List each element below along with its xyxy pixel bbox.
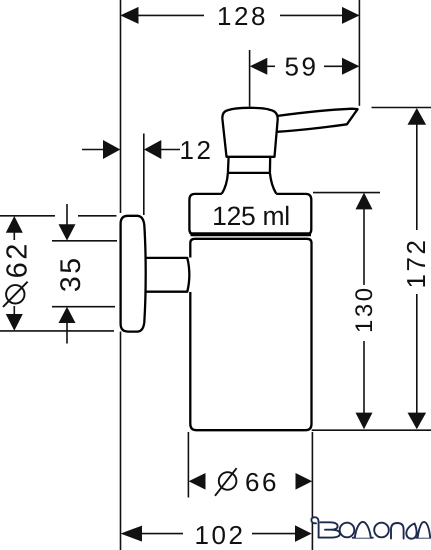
wire bottom right extension line xyxy=(312,429,431,431)
watermark logo Vodopad xyxy=(311,517,430,538)
bottle xyxy=(190,239,311,430)
arrow 172 bottom pointing down xyxy=(408,413,427,430)
arrow 35 upper pointing down xyxy=(59,224,76,240)
arrow 172 top pointing up xyxy=(408,108,427,125)
arrow 102 right xyxy=(295,525,312,542)
symbol diameter of 66 xyxy=(219,472,237,490)
wire 12 dimension line right tail xyxy=(160,149,180,151)
arrow 128 left xyxy=(120,7,138,24)
wall plate xyxy=(121,216,146,332)
wire 128 dimension line xyxy=(137,14,204,16)
wire dia62 bottom extension line xyxy=(0,330,114,332)
spout xyxy=(277,109,358,132)
letter V(B) bumps xyxy=(319,522,340,537)
arrow dia66 left xyxy=(189,473,206,490)
letter p arch xyxy=(391,523,404,539)
letter V(B) stem with curl xyxy=(311,517,318,537)
svg-text:125 ml: 125 ml xyxy=(212,201,290,231)
wire 12 dimension line left tail xyxy=(82,149,104,151)
wire dia62 dimension line tails xyxy=(13,231,15,240)
arrow 35 lower pointing up xyxy=(59,307,76,323)
arrow 12 left pointing right xyxy=(103,140,120,159)
arrow dia62 bottom pointing down xyxy=(6,314,23,331)
wire 172 dimension line xyxy=(416,124,418,231)
pump head xyxy=(222,108,277,157)
arrow 130 bottom pointing down xyxy=(356,413,373,430)
wire 59 left extension line xyxy=(249,50,251,107)
wire 59 dimension line xyxy=(266,65,275,67)
letter a drop xyxy=(406,524,416,539)
svg-text:59: 59 xyxy=(285,52,319,82)
wire 35 bottom extension line xyxy=(52,306,115,308)
arrow 128 right xyxy=(342,7,360,24)
wire 35 top extension line xyxy=(52,240,117,242)
wire dia66 left extension line xyxy=(187,432,189,498)
letter d 2 bell xyxy=(418,522,431,538)
wire 35 dimension line tails xyxy=(66,204,68,226)
letter o 1 xyxy=(340,523,355,538)
pump skirt xyxy=(222,173,276,194)
wire dia66 right extension line xyxy=(311,432,313,550)
svg-text:66: 66 xyxy=(245,467,279,497)
arm xyxy=(145,258,189,292)
arrow dia62 top pointing up xyxy=(6,216,23,233)
letter d 2 base xyxy=(416,537,430,539)
svg-text:128: 128 xyxy=(217,1,268,31)
letter d 1 base xyxy=(353,537,373,539)
holder thick bottom edge xyxy=(191,232,312,236)
wire wall extension line upper xyxy=(120,0,122,213)
wire 130 top extension line xyxy=(313,192,380,194)
svg-text:172: 172 xyxy=(401,238,431,289)
letter o 2 xyxy=(374,523,389,538)
arrow dia66 right xyxy=(296,473,313,490)
svg-text:12: 12 xyxy=(180,135,214,165)
arrow 130 top pointing up xyxy=(356,193,373,210)
arrow 12 right pointing left xyxy=(144,140,161,159)
wire 102 dimension line xyxy=(141,533,183,535)
svg-text:35: 35 xyxy=(55,255,87,292)
arrow 59 left xyxy=(250,58,267,75)
arrow 102 left xyxy=(121,526,143,542)
wire 12 right extension line xyxy=(143,134,145,216)
arrow 59 right xyxy=(342,58,359,75)
wire dia62 top extension line xyxy=(0,215,55,217)
svg-text:130: 130 xyxy=(351,285,378,333)
svg-text:102: 102 xyxy=(195,520,246,550)
wire 172 top extension line xyxy=(372,107,431,109)
svg-text:62: 62 xyxy=(2,241,34,278)
holder 125ml ring xyxy=(189,194,311,235)
pump neck xyxy=(228,157,270,173)
symbol diameter of 62 xyxy=(6,285,24,303)
letter d 1 bell xyxy=(355,522,371,538)
wire 130 dimension line xyxy=(363,209,365,286)
wire wall extension line lower xyxy=(120,332,122,550)
wire right extension line top xyxy=(358,0,360,106)
